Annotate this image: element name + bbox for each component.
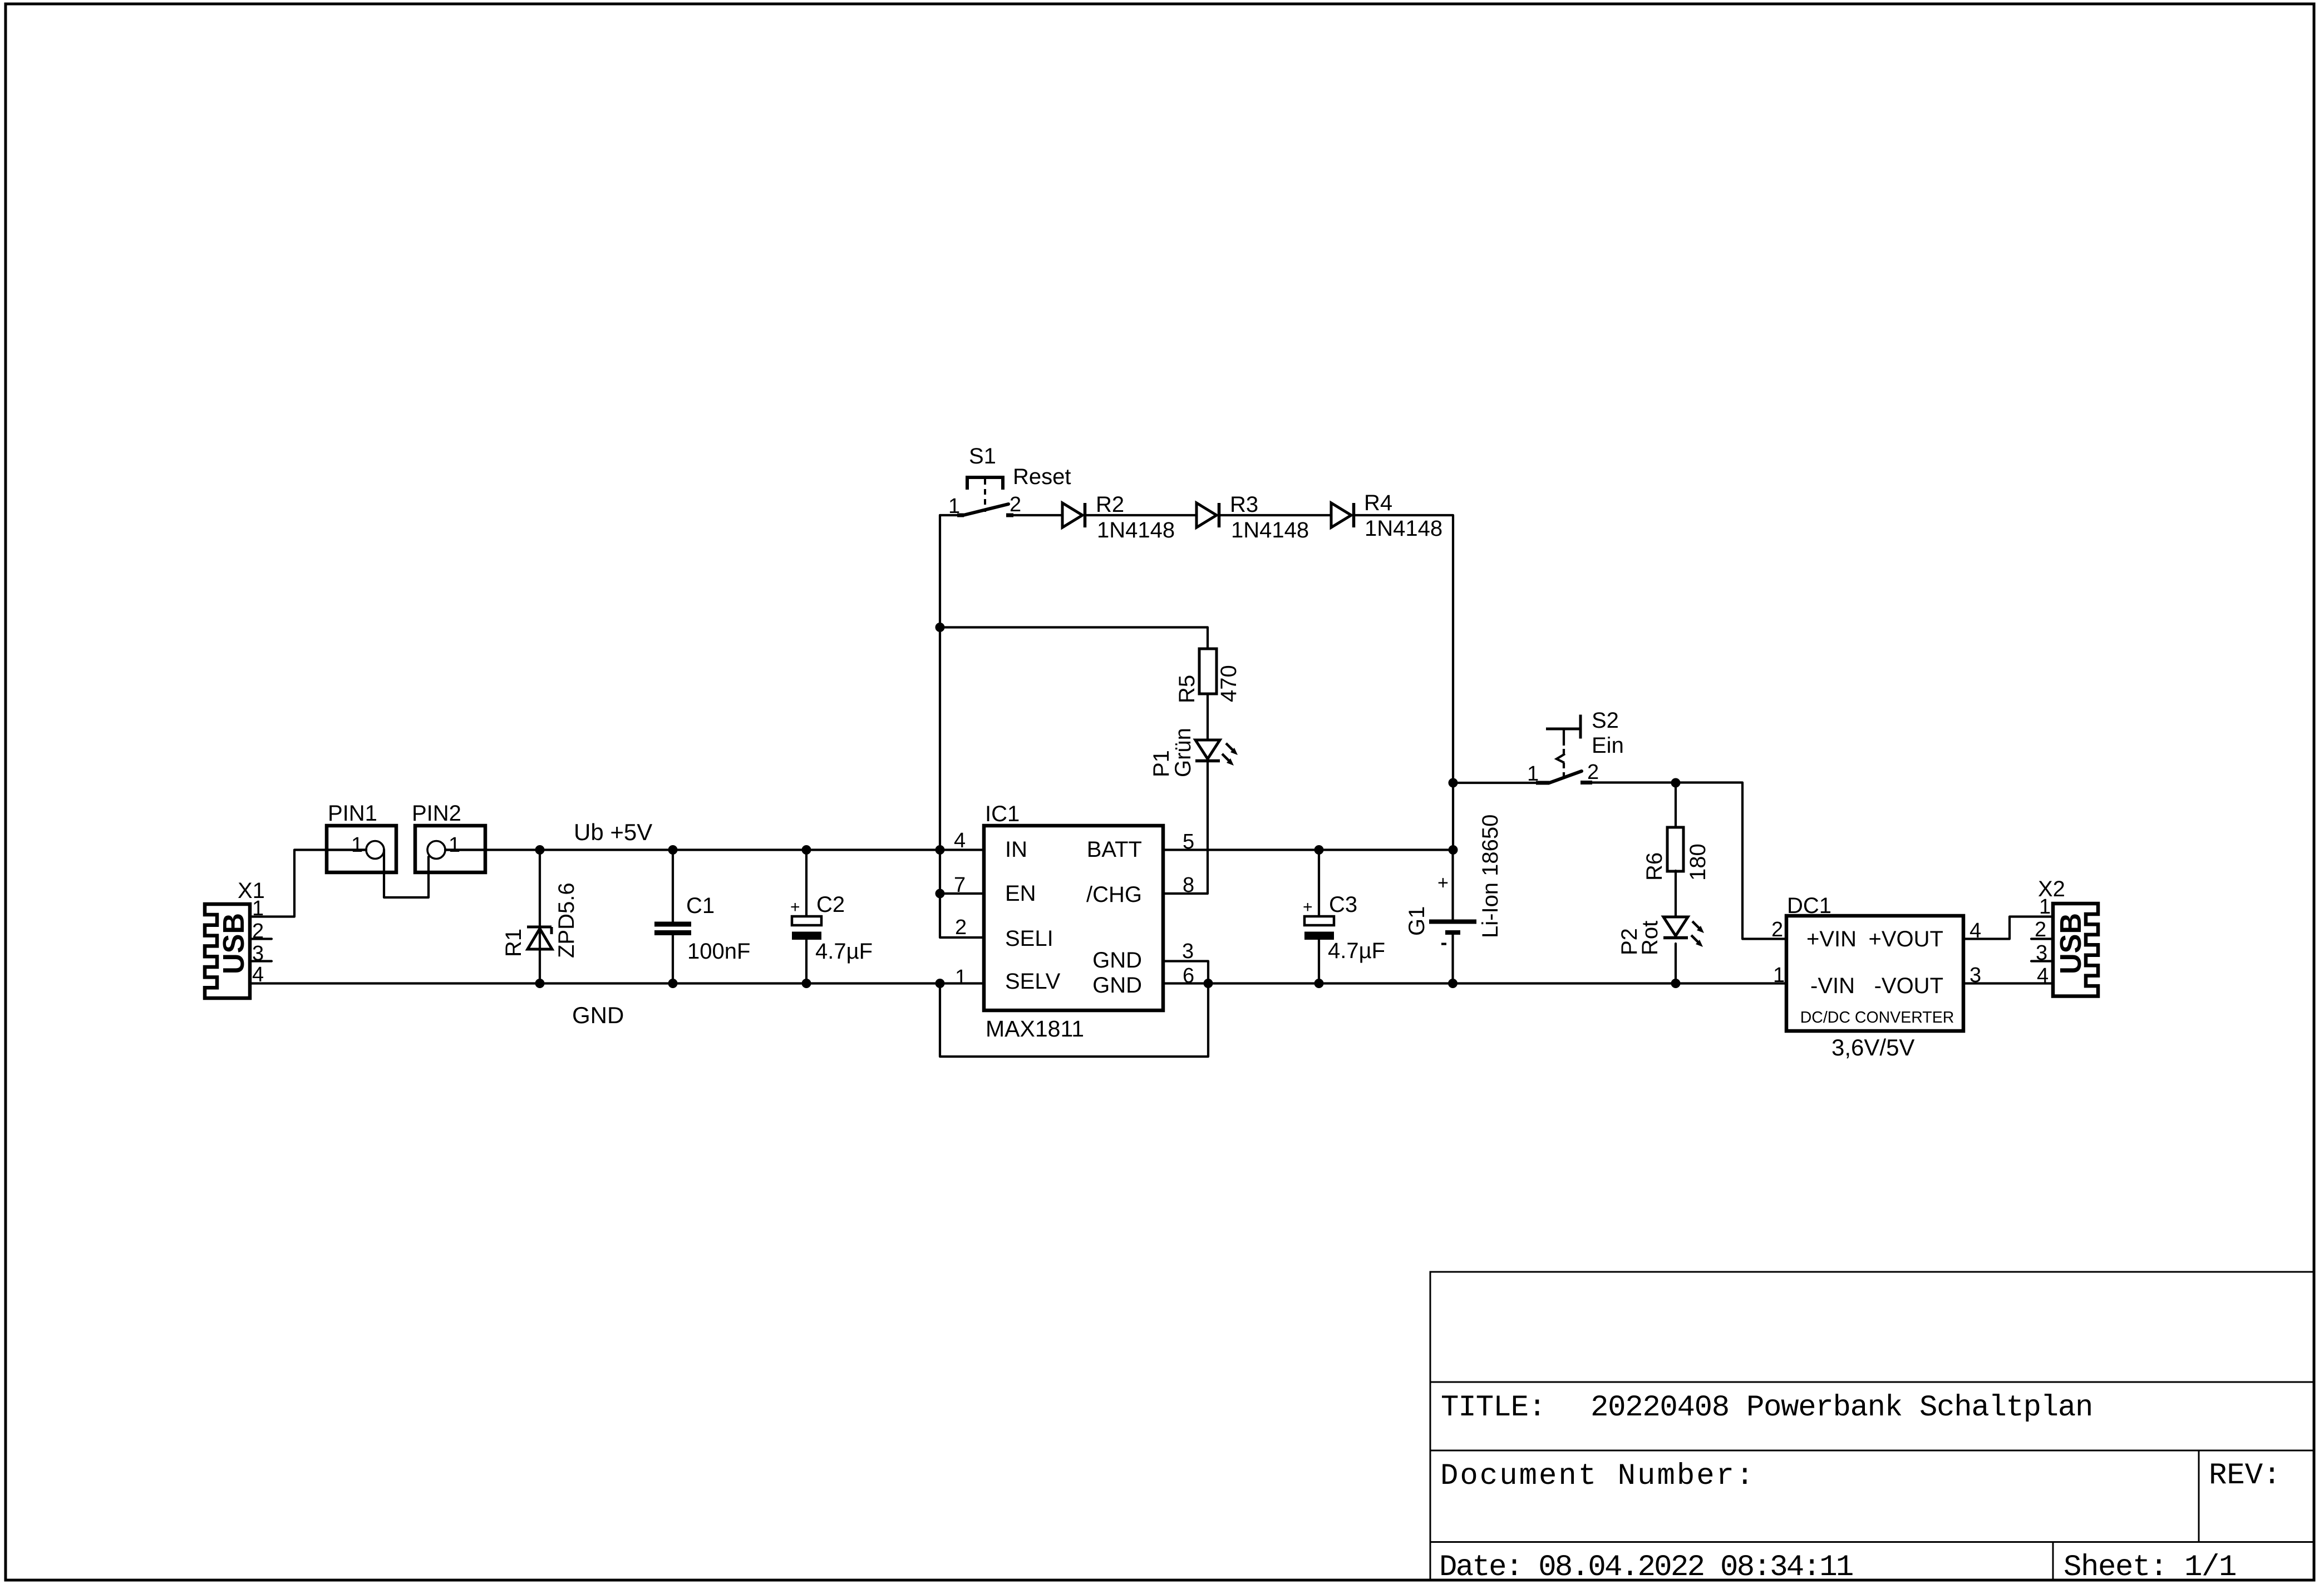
svg-text:PIN1: PIN1 [328,801,377,826]
svg-text:180: 180 [1686,843,1710,881]
svg-text:2: 2 [1010,493,1021,516]
node junction IC1 pin4 [935,845,945,855]
svg-text:Ein: Ein [1592,733,1624,758]
wire PIN1 to PIN2 jumper [384,850,429,898]
svg-text:Ub +5V: Ub +5V [574,819,652,845]
wire IC1 pin3 elbow [1163,961,1208,984]
wire R6 to LED P2 [1675,871,1677,917]
svg-text:USB: USB [217,913,250,974]
svg-text:GND: GND [572,1002,624,1028]
svg-text:P1: P1 [1149,750,1174,777]
svg-text:2: 2 [955,916,967,939]
wire R5 feed [940,628,1208,649]
diode R3 (1N4148) [1197,492,1309,542]
wire BATT rail [1163,848,1453,851]
module DC1 (DC/DC converter) [1771,894,1981,1060]
svg-text:GND: GND [1092,948,1142,973]
wire battery branch [1451,850,1454,984]
svg-text:5: 5 [1183,830,1194,853]
svg-text:C3: C3 [1329,892,1357,917]
wire S2 rail left [1453,782,1547,784]
node junction battery bottom [1448,979,1458,988]
svg-text:PIN2: PIN2 [412,801,461,826]
svg-text:7: 7 [954,874,966,897]
svg-text:4: 4 [2037,964,2049,988]
connector PIN2 [412,801,485,872]
svg-text:1: 1 [351,833,363,857]
svg-text:SELI: SELI [1005,926,1053,951]
node label Ub +5V [574,819,652,845]
svg-text:1N4148: 1N4148 [1231,518,1309,542]
node junction C1 bottom [668,979,678,988]
wire X2 pin2 stub [2031,937,2053,940]
svg-text:1: 1 [2039,895,2051,919]
svg-text:+VOUT: +VOUT [1869,927,1943,951]
wire R5 to LED P1 [1207,694,1209,740]
title block Sheet row [2064,1551,2236,1585]
svg-text:1N4148: 1N4148 [1365,516,1442,541]
wire C3 branch [1318,850,1320,984]
wire X1 pin2 stub [250,937,272,940]
svg-text:Li-Ion 18650: Li-Ion 18650 [1478,815,1503,938]
svg-text:+: + [1437,872,1449,894]
svg-text:Rot: Rot [1638,921,1662,955]
svg-text:MAX1811: MAX1811 [986,1016,1084,1042]
wire C2 branch [805,850,808,984]
svg-text:1: 1 [252,897,264,920]
svg-text:2: 2 [1587,761,1599,784]
wire S1 feed vertical [940,515,984,937]
svg-text:Sheet: 1/1: Sheet: 1/1 [2064,1551,2236,1585]
node junction R6 top [1671,778,1681,788]
wire GND rail [250,982,984,984]
node junction C2 bottom [802,979,811,988]
svg-text:2: 2 [252,920,264,943]
svg-text:100nF: 100nF [687,939,750,964]
svg-text:-VOUT: -VOUT [1874,974,1943,998]
svg-text:DC/DC CONVERTER: DC/DC CONVERTER [1800,1009,1954,1027]
capacitor C1 (100nF) [654,894,750,964]
title block TITLE label [1441,1391,1545,1425]
svg-text:4.7µF: 4.7µF [815,939,873,964]
title block Date row [1439,1551,1853,1585]
wire DC1 +VOUT to X2 pin1 [1963,917,2053,939]
diode R2 (1N4148) [1062,492,1175,542]
svg-text:EN: EN [1005,881,1036,906]
wire R6 branch top [1675,783,1677,827]
svg-text:R6: R6 [1642,852,1667,881]
svg-text:1N4148: 1N4148 [1097,518,1175,542]
svg-text:ZPD5.6: ZPD5.6 [554,882,579,958]
wire DC1 -VOUT to X2 pin4 [1963,982,2053,984]
svg-text:S1: S1 [969,444,996,468]
svg-text:4: 4 [1970,919,1981,942]
wire X1 pin1 to PIN1 [250,850,366,917]
svg-text:4: 4 [954,829,966,852]
wire R1 branch [539,850,541,984]
svg-text:3: 3 [1182,940,1194,963]
svg-text:3: 3 [1970,964,1981,987]
node junction C2 top [802,845,811,855]
svg-text:470: 470 [1217,665,1241,702]
battery G1 (Li-Ion 18650) [1405,815,1503,945]
svg-text:R1: R1 [501,929,526,957]
svg-text:1: 1 [449,833,460,857]
wire R4 to S2 rail [1355,515,1453,850]
title block title value [1591,1391,2092,1425]
svg-text:R4: R4 [1364,491,1392,515]
node junction R5 feed [935,623,945,632]
svg-text:3: 3 [2036,941,2047,965]
connector X1 (USB) [205,879,265,998]
svg-text:8: 8 [1183,874,1194,897]
wire S1 pin2 to R2 [1007,514,1062,516]
svg-text:1: 1 [1527,762,1539,786]
node junction IC1 pin6 GND [1204,979,1213,988]
wire S1 pin1 stub [940,514,961,516]
svg-text:4.7µF: 4.7µF [1328,939,1385,963]
svg-text:2: 2 [2035,918,2046,941]
svg-text:R3: R3 [1230,492,1258,517]
svg-text:SELV: SELV [1005,969,1061,994]
svg-text:2: 2 [1771,918,1783,941]
svg-text:C1: C1 [686,894,715,918]
node junction IC1 pin1 GND [935,979,945,988]
resistor R6 (180) [1642,827,1710,881]
title block frame [1430,1272,2314,1580]
svg-text:+: + [790,898,800,916]
capacitor C2 (4.7uF polarized) [790,892,873,964]
wire LED P1 to IC1 pin8 [1163,761,1208,894]
svg-text:/CHG: /CHG [1086,882,1142,907]
svg-text:1: 1 [955,966,967,989]
svg-text:6: 6 [1183,964,1194,988]
wire IC1 pin6 and GND rail right [1163,982,1786,984]
svg-text:4: 4 [252,963,264,986]
pushbutton S1 (Reset) [948,444,1071,518]
svg-text:Reset: Reset [1013,465,1071,489]
svg-text:-VIN: -VIN [1810,974,1855,998]
wire IC1 pin7 stub [940,892,984,895]
diode R4 (1N4148) [1331,491,1442,541]
svg-text:TITLE:: TITLE: [1441,1391,1545,1425]
svg-text:3,6V/5V: 3,6V/5V [1831,1034,1914,1060]
IC U1 IC1 MAX1811 [954,802,1194,1042]
svg-text:+: + [1303,898,1313,916]
connector X2 (USB) [2035,877,2098,996]
wire R3 to R4 [1220,514,1331,516]
node junction R1 bottom [535,979,545,988]
title block Document Number label [1440,1459,1755,1493]
node junction S2 rail [1449,778,1458,788]
svg-text:1: 1 [948,495,960,518]
svg-text:1: 1 [1773,964,1785,987]
svg-text:USB: USB [2054,913,2087,974]
svg-text:BATT: BATT [1087,837,1142,862]
svg-text:DC1: DC1 [1787,894,1831,918]
svg-text:Date: 08.04.2022 08:34:11: Date: 08.04.2022 08:34:11 [1439,1551,1853,1585]
node junction C3 top [1314,845,1324,855]
svg-text:Document Number:: Document Number: [1440,1459,1755,1493]
zener diode R1 (ZPD5.6) [501,882,579,958]
wire S2 pin2 to DC1 [1586,783,1786,939]
svg-text:REV:: REV: [2209,1459,2281,1493]
wire PIN2 to Ub+5V rail [445,848,540,851]
svg-text:Grün: Grün [1171,728,1195,777]
wire GND loop under IC1 [940,984,1208,1057]
svg-text:20220408 Powerbank Schaltplan: 20220408 Powerbank Schaltplan [1591,1391,2092,1425]
node junction P2 bottom [1671,979,1681,988]
wire R2 to R3 [1086,514,1197,516]
node junction C3 bottom [1314,979,1324,988]
wire Ub +5V rail [540,848,984,851]
svg-text:C2: C2 [816,892,845,917]
capacitor C3 (4.7uF polarized) [1303,892,1385,963]
wire X1 pin3 stub [250,960,272,962]
node junction R1 top [535,845,545,855]
wire LED P2 to GND [1675,944,1677,984]
svg-text:IC1: IC1 [985,802,1020,826]
LED P2 (Rot) [1617,917,1704,955]
svg-text:G1: G1 [1405,906,1429,936]
node junction C1 top [668,845,678,855]
svg-text:IN: IN [1005,837,1027,862]
svg-text:S2: S2 [1592,708,1619,733]
wire C1 branch [672,850,674,984]
title block REV label [2209,1459,2281,1493]
resistor R5 (470) [1175,649,1241,703]
LED P1 (Gruen) [1149,728,1238,777]
svg-text:GND: GND [1092,973,1142,998]
svg-text:R2: R2 [1096,492,1124,517]
svg-text:3: 3 [252,942,264,965]
node junction IC1 pin7 [935,889,945,899]
connector PIN1 [327,801,396,872]
pushbutton S2 (Ein) [1527,708,1624,786]
svg-text:R5: R5 [1175,675,1199,703]
svg-text:+VIN: +VIN [1806,927,1857,951]
node label GND [572,1002,624,1028]
wire X2 pin3 stub [2031,960,2053,962]
node junction battery top [1449,845,1458,855]
